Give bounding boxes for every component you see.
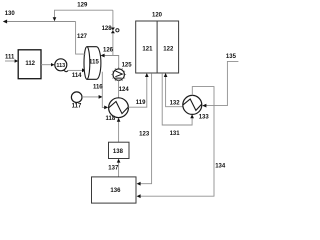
svg-text:113: 113 [56, 63, 65, 69]
wire from 138 up into exchanger 118 [117, 118, 121, 142]
wire 137 from 136 up into 138 [117, 159, 121, 177]
svg-text:127: 127 [77, 34, 88, 40]
svg-text:132: 132 [170, 101, 181, 107]
svg-text:123: 123 [139, 132, 150, 138]
svg-text:114: 114 [72, 73, 82, 79]
svg-text:130: 130 [5, 11, 16, 17]
unit box 138 [109, 142, 130, 158]
wire 132 exchanger 133 to box 122 [164, 73, 183, 107]
svg-text:111: 111 [5, 55, 15, 61]
svg-text:128: 128 [102, 26, 113, 32]
wire 129 overhead line [53, 10, 113, 21]
wire 135 feed into exchanger 133 [202, 61, 238, 107]
svg-text:124: 124 [119, 87, 130, 93]
compressor 125 [111, 67, 126, 82]
svg-text:117: 117 [72, 104, 82, 110]
svg-text:129: 129 [77, 3, 88, 9]
wire from 129 down through valve 128 [112, 10, 114, 55]
wire 124 compressor to exchanger [118, 80, 120, 98]
svg-text:122: 122 [163, 46, 174, 52]
unit box 112 [18, 50, 41, 79]
valve 128 [111, 28, 119, 34]
svg-text:134: 134 [215, 163, 226, 169]
svg-text:120: 120 [152, 12, 163, 18]
svg-text:133: 133 [199, 115, 210, 121]
svg-text:125: 125 [122, 62, 133, 68]
unit circle 117 [71, 92, 82, 103]
wire 116 column bottoms to exchanger [102, 72, 108, 110]
heat exchanger 118 [109, 98, 129, 118]
svg-text:136: 136 [110, 188, 121, 194]
svg-text:121: 121 [142, 46, 153, 52]
wire 119 exchanger to box 121 [128, 73, 148, 107]
wire stream 111 inlet [5, 59, 18, 62]
wire 123 from 121 down into 136 [137, 73, 152, 185]
svg-text:115: 115 [89, 60, 99, 66]
wire 112 to 113 [41, 63, 55, 66]
svg-text:135: 135 [226, 54, 237, 60]
wire 127 recycle into column top [76, 22, 86, 55]
heat exchanger 133 [183, 95, 202, 114]
wire from 117 to 116 line [82, 95, 103, 99]
wire 131 from 122 down into exchanger 133 bottom [162, 73, 194, 125]
svg-text:126: 126 [103, 47, 114, 53]
svg-text:119: 119 [136, 100, 146, 106]
wire 134 exchanger top around to box 136 [137, 87, 214, 199]
wire 126 compressor discharge into column [100, 54, 118, 69]
unit box 136 [92, 177, 137, 203]
pump 113 [55, 59, 68, 72]
column vessel 115 (horizontal cylinder) [84, 47, 101, 80]
svg-text:138: 138 [113, 149, 124, 155]
wire 130 product out left [3, 20, 76, 24]
unit box 120 divided vessel [136, 21, 179, 73]
svg-text:137: 137 [108, 166, 119, 172]
wire 114 pump outlet to column [68, 68, 86, 72]
svg-text:118: 118 [106, 116, 116, 122]
svg-text:116: 116 [93, 85, 103, 91]
svg-text:112: 112 [25, 61, 35, 67]
svg-text:131: 131 [170, 131, 181, 137]
